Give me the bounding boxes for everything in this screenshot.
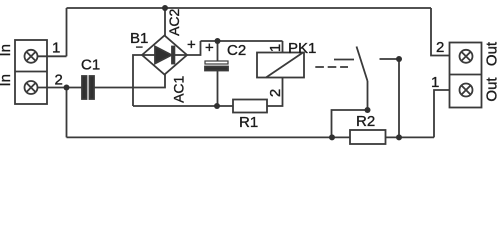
wire AC2 riser	[164, 8, 166, 36]
wire bridge minus stub and drop to R1 row	[133, 55, 142, 106]
svg-text:In: In	[0, 44, 14, 57]
capacitor C1	[82, 76, 94, 99]
wire R1 to relay pin 2	[267, 78, 283, 107]
svg-text:AC2: AC2	[166, 8, 182, 35]
svg-text:C2: C2	[227, 42, 246, 59]
node top rail to AC2	[162, 5, 168, 11]
wire C2 top riser	[217, 41, 219, 61]
node bottom rail left of R2	[329, 134, 335, 140]
svg-text:+: +	[205, 40, 214, 57]
svg-text:2: 2	[55, 72, 63, 89]
resistor R1	[233, 100, 267, 113]
node bottom rail right of R2	[396, 134, 402, 140]
wire bridge plus stub and riser to plus rail	[187, 41, 201, 55]
dashed mechanical link	[315, 66, 348, 68]
switch right stub	[380, 58, 400, 60]
svg-text:2: 2	[436, 39, 444, 56]
wire riser to top rail	[66, 8, 68, 56]
wire relay pin 1 drop	[282, 41, 284, 53]
node plus rail to C2	[215, 38, 221, 44]
wire R1 row	[133, 105, 233, 107]
svg-text:1: 1	[267, 44, 284, 52]
svg-text:2: 2	[267, 89, 284, 97]
node minus row to C2	[214, 103, 220, 109]
wire plus rail	[201, 40, 283, 42]
wire bottom rail left segment	[67, 136, 351, 138]
svg-text:AC1: AC1	[170, 75, 186, 102]
node switch right stub	[396, 56, 402, 62]
wire switch stub drop to bottom rail	[398, 59, 400, 137]
resistor R2	[350, 130, 386, 144]
wire blade drop	[367, 81, 369, 110]
wire blade to bottom rail	[332, 110, 368, 137]
svg-text:Out: Out	[484, 41, 500, 66]
wire input terminal 2 to C1	[38, 87, 83, 89]
input terminal block X1	[15, 40, 47, 104]
wire bottom rail right segment	[386, 136, 435, 138]
svg-text:Out: Out	[484, 77, 500, 102]
wire C2 bottom riser	[217, 71, 219, 107]
relay coil PK1	[257, 53, 304, 78]
node input terminal 2	[64, 85, 70, 91]
capacitor C2	[205, 61, 228, 71]
svg-text:1: 1	[52, 40, 60, 57]
bridge rectifier B1	[142, 36, 187, 75]
svg-text:+: +	[187, 37, 196, 54]
svg-text:PK1: PK1	[288, 40, 316, 57]
wire riser to bottom rail	[66, 88, 68, 138]
svg-text:R2: R2	[356, 113, 375, 130]
wire bottom-right riser to output terminal 1	[434, 90, 450, 137]
wire top-right drop to output terminal 2	[431, 8, 450, 56]
switch blade	[357, 47, 368, 82]
wire top rail	[67, 7, 432, 9]
svg-text:C1: C1	[81, 57, 100, 74]
svg-text:1: 1	[431, 74, 439, 91]
svg-text:R1: R1	[239, 114, 258, 131]
svg-text:−: −	[136, 40, 144, 55]
wire C1 to bridge AC1	[94, 75, 165, 88]
wire input terminal 1 to riser	[38, 55, 67, 57]
svg-text:In: In	[0, 74, 14, 87]
switch left lead	[334, 59, 354, 61]
output terminal block X2	[450, 43, 482, 108]
node blade corner	[365, 107, 371, 113]
